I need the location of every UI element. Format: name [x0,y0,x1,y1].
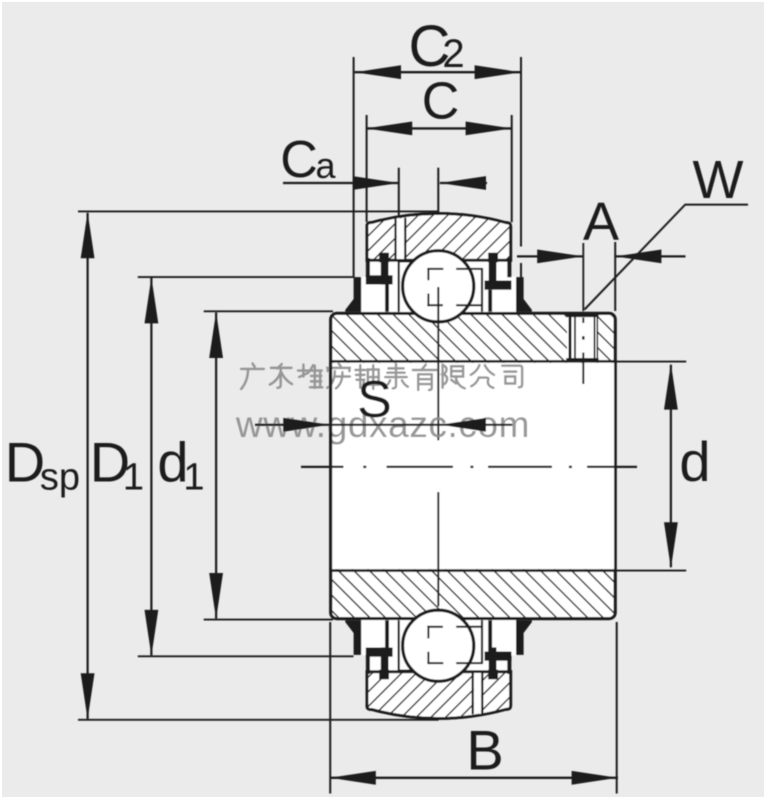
dimension S [255,424,512,426]
set screw hole in inner ring extension [567,316,598,358]
svg-text:a: a [315,145,336,186]
outer ring top inner face line [366,259,512,262]
C extension right [511,115,513,222]
seal inner wall top left [381,261,389,285]
C2 left arrowhead [355,65,401,79]
Dsp extension top (sphere top) [78,210,439,212]
outer ring inner face line redraw top [366,259,512,262]
Ca arrowhead pointing left [440,176,486,190]
C2 right arrowhead [475,65,521,79]
d1 top arrowhead [209,312,223,358]
screw hole right wall [596,316,598,359]
dimension d1 [215,313,217,619]
A left arrowhead [537,250,583,264]
D1 extension bottom [138,655,354,657]
seal zone underlay top [361,262,516,312]
dimension A [517,255,583,257]
Ca extension right (ball center) [437,168,439,214]
d top arrowhead [664,364,678,410]
screw hole left inner line [574,316,576,359]
inner ring land top bottom left [400,669,412,671]
C2 extension right upper [520,57,522,247]
seal inner wall bottom right [489,647,497,671]
dimension C2 [355,71,521,73]
D1 bottom arrowhead [145,610,159,656]
svg-text:2: 2 [442,32,464,76]
seal lip bump bottom left [379,670,389,680]
seal web bottom left [366,648,393,657]
svg-text:d: d [679,430,710,493]
dimension d [670,365,672,568]
seal web top left [366,275,393,284]
A right arrowhead [615,250,661,264]
Dsp extension bottom [78,719,439,721]
lubrication slot in top outer ring [397,218,405,259]
screw hole left wall thick [569,315,572,360]
D1 top arrowhead [145,277,159,323]
inner ring recess edge top right [481,268,483,312]
inner ring left edge over watermark [329,361,332,570]
svg-text:B: B [466,719,503,782]
seal lip bump top right [488,253,498,263]
seal lower wall bottom right [488,620,492,651]
ball, bottom [403,610,474,681]
dimension Ca [283,182,399,184]
seal outer wall top left [366,258,370,277]
svg-text:A: A [583,192,619,252]
seal zone underlay bottom [361,620,516,670]
seal web bottom right [485,652,512,661]
d extension top [615,361,686,363]
dimension Dsp [86,213,88,719]
svg-text:W: W [693,150,744,210]
dimension D1 [150,278,152,656]
svg-text:C: C [422,73,460,131]
D1 extension top [138,276,355,278]
inner ring land edge top left [398,260,400,311]
seal inner wall top right [489,261,497,285]
C right arrowhead [466,122,512,136]
inner ring recess edge bottom right [481,620,483,664]
outer ring with spherical OD, top section [367,214,511,261]
svg-text:C: C [280,131,318,189]
seal inner wall bottom left [381,647,389,671]
hidden raceway profile top (dashed) [427,268,429,280]
inner ring land top top left [400,260,412,262]
S arrowhead pointing left at ball plane [440,418,486,432]
Dsp bottom arrowhead [81,673,95,719]
seal lower wall top left [385,285,389,312]
seal lip bump top left [379,253,389,263]
bore bottom line (d lower) [332,569,615,572]
B extension right [616,622,618,794]
flinger boot bottom left [345,620,361,655]
flinger boot top right [516,277,532,312]
Dsp top arrowhead [81,212,95,258]
inner ring (extended inner ring of insert bearing), cross-section band [331,313,616,618]
seal lower wall bottom left [385,620,389,647]
seal lower wall top right [488,290,492,312]
svg-text:sp: sp [40,457,80,499]
outer ring with spherical OD, bottom section [367,672,511,719]
screw hole top border [566,314,598,317]
d1 extension top [204,310,333,312]
seal outer wall top right [507,258,511,277]
outer ring inner face line redraw bottom [366,670,512,673]
screw hole bottom border [566,358,598,361]
seal outer wall bottom left [366,655,370,674]
ball center plane line, bottom [437,492,439,607]
svg-text:1: 1 [123,457,144,499]
seal lip bump bottom right [488,670,498,680]
B right arrowhead [572,771,618,785]
d bottom arrowhead [664,522,678,568]
C extension left [366,115,368,222]
bore top line (d upper) [332,360,615,363]
watermark chinese company name [241,364,522,390]
inner ring land edge bottom left [398,620,400,671]
d extension bottom [615,570,686,572]
d1 extension bottom [204,619,333,621]
dimension B [330,777,619,779]
dimension C [366,127,512,129]
flinger boot top left [345,277,361,312]
svg-text:S: S [357,371,392,429]
C left arrowhead [366,122,412,136]
outer ring bottom inner face line [366,670,512,673]
lubrication slot in bottom outer ring [474,672,481,713]
A extension right [614,242,616,311]
main axis centerline (dash-dot) [301,466,344,468]
flinger boot bottom right [516,620,532,655]
Ca arrowhead pointing right [353,176,399,190]
ball, top [403,251,474,322]
C2 extension left [353,57,355,277]
seal web top right [485,281,512,290]
B extension left [329,622,331,794]
hidden raceway profile bottom (dashed) [427,652,429,664]
bore of inner ring (shaft hole, white) [332,363,614,569]
ball center plane line, top [437,287,439,440]
C2 extension right lower [520,263,522,277]
S arrowhead pointing right at face [283,418,329,432]
B left arrowhead [330,771,376,785]
d1 bottom arrowhead [209,573,223,619]
Ca extension left [398,168,400,216]
set screw centerline [582,243,584,311]
screw hole right inner line [594,316,596,359]
svg-text:1: 1 [183,457,204,499]
seal outer wall bottom right [507,655,511,674]
